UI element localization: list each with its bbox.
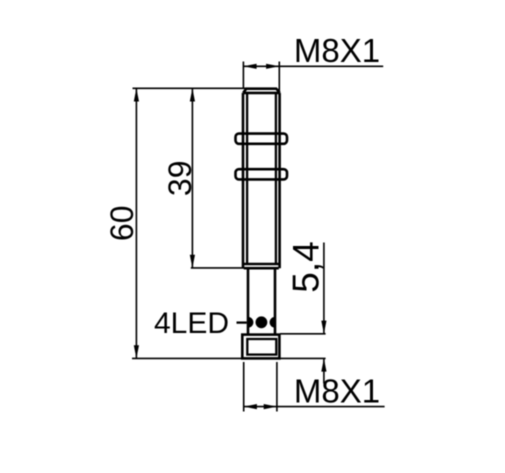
dimension 39 bottom extension line [191,267,246,269]
svg-text:60: 60 [104,206,140,242]
bottom dimension line with underline [244,406,385,408]
svg-text:39: 39 [162,161,198,197]
thread bottom step [244,264,279,268]
dimension 39 line [191,88,193,268]
dimension 39 arrows [190,88,195,268]
dimension 5,4 top extension line [280,333,326,335]
LED leader line [237,321,247,323]
dimension 5,4 line upper [323,243,325,334]
bottom cap outer [242,335,279,359]
svg-text:4LED: 4LED [154,307,229,340]
top dimension line with underline [243,65,383,67]
barrel thread inner lines [247,93,276,264]
bottom dimension arrows [244,404,277,409]
lower body walls [248,268,275,335]
LED dot left half [248,317,253,328]
dimension 60 arrows [134,88,139,358]
bottom dimension extension lines [244,362,277,412]
LED dot center [256,316,268,328]
barrel top cap [243,89,280,93]
bottom cap inner [247,339,276,355]
dimension 60 line [135,88,137,358]
top dimension arrows [243,64,279,69]
svg-text:5,4: 5,4 [286,241,327,292]
LED dot right half [270,317,275,328]
top left extension line [133,87,247,89]
svg-text:M8X1: M8X1 [294,373,380,410]
bottom long extension line [132,357,326,359]
barrel outer walls [243,93,280,268]
dimension 5,4 line lower [323,358,325,383]
top dimension extension lines [243,62,279,92]
ring nut 1 [236,134,288,144]
svg-text:M8X1: M8X1 [294,32,380,69]
dimension 5,4 arrows [321,321,326,372]
ring nut 2 [236,169,288,179]
